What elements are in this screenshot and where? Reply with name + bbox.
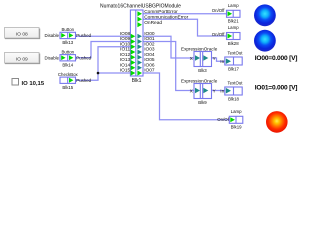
wire IO07 to Lamp Blk19 — [142, 73, 229, 120]
pin row IO12 / IO04 — [120, 52, 155, 60]
svg-text:IO02: IO02 — [144, 41, 155, 47]
wire CommunicationError to Lamp Blk28 — [142, 19, 226, 36]
svg-text:IO12: IO12 — [120, 52, 131, 58]
wire Blk3 Y to TextOut Blk17 In — [212, 58, 225, 61]
svg-text:IO09: IO09 — [120, 36, 131, 42]
svg-text:IO11: IO11 — [120, 47, 130, 53]
svg-text:Blk19: Blk19 — [231, 125, 242, 130]
svg-text:IO14: IO14 — [120, 62, 131, 68]
pin row IO08 / IO00 — [120, 31, 155, 39]
pin OnRead — [137, 22, 142, 27]
lamp indicator blue 2 — [254, 30, 276, 52]
lamp indicator red — [266, 111, 288, 133]
svg-text:In: In — [220, 59, 224, 65]
component ExpressionOracle Blk3 — [181, 46, 218, 73]
svg-text:Blk15: Blk15 — [62, 85, 73, 90]
wire Blk13 Pushed to IO08 — [76, 35, 131, 37]
component CheckBox Blk15 — [58, 72, 92, 90]
lamp indicator blue 1 — [254, 4, 276, 26]
svg-text:ExpressionOracle: ExpressionOracle — [181, 46, 218, 51]
svg-text:IO00=0.000 [V]: IO00=0.000 [V] — [255, 55, 297, 62]
svg-text:Blk17: Blk17 — [228, 67, 239, 72]
svg-text:CommunicationError: CommunicationError — [144, 14, 188, 20]
wire IO01 to ExpressionOracle Blk9 X input — [142, 42, 194, 91]
component TextOut Blk17 — [220, 51, 243, 72]
svg-text:IO08: IO08 — [120, 31, 131, 37]
svg-text:X: X — [190, 56, 194, 62]
svg-text:Blk28: Blk28 — [228, 41, 239, 46]
svg-text:IO01=0.000 [V]: IO01=0.000 [V] — [255, 85, 297, 92]
component Lamp Blk19 — [217, 109, 243, 130]
wire Blk15 Pushed to IO10 — [76, 47, 131, 80]
svg-text:IO 10,15: IO 10,15 — [22, 81, 45, 87]
svg-text:IO13: IO13 — [120, 57, 131, 63]
svg-text:In: In — [220, 89, 224, 95]
svg-text:IO00: IO00 — [144, 31, 155, 37]
svg-text:Pushed: Pushed — [76, 56, 91, 61]
svg-text:TextOut: TextOut — [228, 81, 244, 86]
svg-text:Blk21: Blk21 — [228, 19, 239, 24]
svg-text:Blk13: Blk13 — [62, 40, 73, 45]
svg-text:X: X — [190, 88, 194, 94]
svg-text:IO 09: IO 09 — [16, 56, 28, 62]
pin CommunicationError — [137, 17, 142, 22]
svg-text:IO01: IO01 — [144, 36, 155, 42]
svg-text:IO03: IO03 — [144, 47, 155, 53]
component Lamp Blk28 — [212, 25, 240, 46]
svg-text:ExpressionOracle: ExpressionOracle — [181, 78, 218, 83]
component Button Blk14 — [45, 49, 92, 67]
svg-text:Blk9: Blk9 — [198, 100, 207, 105]
wire Blk9 Y to TextOut Blk18 In — [212, 90, 225, 92]
svg-text:Button: Button — [62, 49, 75, 54]
svg-text:CommPortError: CommPortError — [144, 9, 178, 15]
button widget IO 09 — [5, 53, 41, 64]
svg-text:IO 08: IO 08 — [16, 31, 28, 37]
svg-text:Numato16ChannelUSBGPIOModule: Numato16ChannelUSBGPIOModule — [100, 4, 181, 10]
svg-text:On/Off: On/Off — [212, 8, 226, 13]
component Lamp Blk21 — [212, 3, 240, 24]
svg-text:IO07: IO07 — [144, 68, 155, 74]
junction dot — [97, 72, 100, 75]
svg-text:Pushed: Pushed — [76, 78, 91, 83]
wire Blk14 Pushed to IO09 — [76, 42, 131, 58]
checkbox widget IO 10,15 — [12, 79, 45, 88]
wire CommPortError to Lamp Blk21 — [142, 13, 226, 15]
svg-text:Blk18: Blk18 — [228, 97, 239, 102]
svg-text:Y: Y — [213, 88, 217, 94]
component TextOut Blk18 — [220, 81, 243, 102]
svg-text:CheckBox: CheckBox — [58, 72, 79, 77]
svg-text:Blk3: Blk3 — [198, 68, 207, 73]
pin row IO14 / IO06 — [120, 62, 155, 70]
pin row IO10 / IO02 — [120, 41, 155, 49]
module block Numato16ChannelUSBGPIOModule — [100, 4, 181, 84]
svg-text:Button: Button — [62, 27, 75, 32]
svg-text:IO15: IO15 — [120, 68, 131, 74]
svg-text:Pushed: Pushed — [76, 33, 91, 38]
pin row IO09 / IO01 — [120, 36, 155, 44]
svg-text:Blk14: Blk14 — [62, 63, 73, 68]
svg-text:OnRead: OnRead — [144, 20, 162, 26]
svg-text:IO06: IO06 — [144, 62, 155, 68]
svg-text:Lamp: Lamp — [228, 25, 239, 30]
svg-text:TextOut: TextOut — [228, 51, 244, 56]
component Button Blk13 — [45, 27, 92, 45]
svg-text:Blk1: Blk1 — [132, 78, 142, 84]
svg-text:IO10: IO10 — [120, 41, 131, 47]
svg-text:Disable: Disable — [45, 33, 60, 38]
pin CommPortError — [137, 11, 142, 16]
svg-text:On/Off: On/Off — [212, 32, 226, 37]
svg-text:Disable: Disable — [45, 56, 60, 61]
pin row IO15 / IO07 — [120, 68, 155, 76]
pin row IO13 / IO05 — [120, 57, 155, 65]
svg-text:Lamp: Lamp — [231, 109, 242, 114]
button widget IO 08 — [5, 28, 41, 39]
svg-text:Lamp: Lamp — [228, 3, 239, 8]
component ExpressionOracle Blk9 — [181, 78, 218, 105]
svg-text:IO04: IO04 — [144, 52, 155, 58]
svg-text:IO05: IO05 — [144, 57, 155, 63]
pin row IO11 / IO03 — [120, 47, 155, 55]
wire branch to IO15 — [98, 72, 131, 74]
wire IO00 to ExpressionOracle Blk3 X input — [142, 36, 194, 58]
